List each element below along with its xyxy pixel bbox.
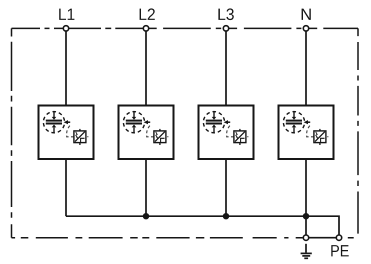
trigger unit U1: square [74, 131, 86, 143]
wire L3 terminal to arrester F3 [225, 28, 227, 105]
trigger unit U3: surge zigzag arrow [236, 132, 238, 139]
spark gap F2: top arrow [132, 112, 137, 120]
trigger unit U2: corner mark [161, 138, 165, 142]
wire bus to ground terminal [305, 216, 307, 238]
spark gap F3: bottom arrow [212, 125, 217, 133]
spark gap F1: top arrow [52, 112, 57, 120]
wire arrester F3 to PE bus [225, 159, 227, 216]
terminal N [303, 26, 308, 31]
spark gap F4: side trigger arrow [304, 120, 311, 124]
terminal L2 [143, 26, 148, 31]
enclosure border top: L1 to L2 (dash-dot) [66, 27, 146, 29]
enclosure border right (dash-dot) [357, 28, 359, 237]
spark gap F3: electrode bars [206, 120, 222, 125]
spark gap F4: electrode bars [286, 120, 302, 125]
enclosure border bottom (dash-dot) [12, 237, 359, 239]
trigger unit U3: stubs [240, 129, 249, 145]
spark gap F2: dashed circle [123, 112, 144, 133]
trigger unit U2: stubs [160, 129, 169, 145]
enclosure border top: L3 to N (dash-dot) [226, 27, 306, 29]
trigger unit U4: diagonal [315, 132, 325, 142]
spark gap F2: electrode bars [126, 120, 142, 125]
trigger unit U1: surge zigzag arrow [76, 132, 78, 139]
trigger unit U1: corner mark [81, 138, 85, 142]
surge arrester F3 box (L3) [199, 106, 254, 160]
dashed control link F4 [307, 126, 314, 137]
trigger unit U3: diagonal [235, 132, 245, 142]
trigger unit U2: diagonal [155, 132, 165, 142]
ground symbol [301, 244, 312, 258]
trigger unit U1: diagonal [75, 132, 85, 142]
spark gap F4: dashed circle [283, 112, 304, 133]
wire N terminal to arrester F4 [305, 28, 307, 105]
wire between ground and PE terminals [306, 237, 339, 239]
trigger unit U2: surge zigzag arrow [156, 132, 158, 139]
wire arrester F1 to PE bus [65, 159, 67, 216]
label L1 [59, 9, 74, 20]
spark gap F2: side trigger arrow [144, 120, 151, 124]
trigger unit U4: corner mark [321, 138, 325, 142]
trigger unit U2: square [154, 131, 166, 143]
spark gap F1: electrode bars [46, 120, 62, 125]
trigger unit U3: square [234, 131, 246, 143]
label L3 [218, 8, 233, 20]
dashed control link F2 [147, 126, 154, 137]
trigger unit U4: square [314, 131, 326, 143]
spark gap F1: side trigger arrow [64, 120, 71, 124]
enclosure border top: L2 to L3 (dash-dot) [146, 27, 226, 29]
spark gap F1: dashed circle [43, 112, 64, 133]
junction dot N/bus [303, 213, 309, 219]
terminal ground (earthing) [303, 235, 308, 240]
wire L1 terminal to arrester F1 [65, 28, 67, 105]
spark gap F3: top arrow [212, 112, 217, 120]
spark gap F1: bottom arrow [52, 125, 57, 133]
trigger unit U4: surge zigzag arrow [316, 132, 318, 139]
spark gap F2: bottom arrow [132, 125, 137, 133]
terminal L3 [223, 26, 228, 31]
enclosure border top: N to corner (dash-dot) [306, 27, 358, 29]
terminal L1 [63, 26, 68, 31]
label N [302, 9, 311, 20]
label L2 [140, 8, 155, 20]
label PE [331, 245, 348, 256]
enclosure border left (dash-dot) [11, 28, 13, 237]
trigger unit U1: stubs [80, 129, 89, 145]
surge arrester F2 box (L2) [119, 106, 174, 160]
wire arrester F2 to PE bus [145, 159, 147, 216]
dashed control link F1 [67, 126, 74, 137]
trigger unit U3: corner mark [241, 138, 245, 142]
wire L2 terminal to arrester F2 [145, 28, 147, 105]
dashed control link F3 [227, 126, 234, 137]
junction dot L3/bus [223, 213, 229, 219]
spark gap F3: side trigger arrow [224, 120, 231, 124]
junction dot L2/bus [143, 213, 149, 219]
terminal PE [336, 235, 341, 240]
wire bus to PE terminal [306, 216, 339, 238]
surge arrester F1 box (L1) [39, 106, 94, 160]
spark gap F4: bottom arrow [292, 125, 297, 133]
enclosure border top: corner to L1 (dash-dot) [12, 27, 67, 29]
spark gap F4: top arrow [292, 112, 297, 120]
spark gap F3: dashed circle [203, 112, 224, 133]
trigger unit U4: stubs [320, 129, 329, 145]
PE bus wire [66, 215, 306, 217]
surge arrester F4 box (N) [279, 106, 334, 160]
wire arrester F4 to PE bus [305, 159, 307, 216]
